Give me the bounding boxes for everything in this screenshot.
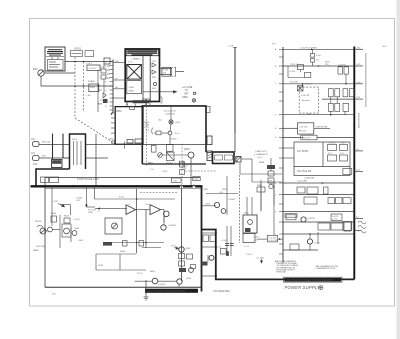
svg-text:R121: R121 — [90, 87, 96, 89]
thermistor RT708 — [298, 86, 304, 92]
svg-text:R646: R646 — [120, 251, 126, 253]
svg-text:LOW VOLTAGE REGULATOR BD: LOW VOLTAGE REGULATOR BD — [147, 290, 185, 293]
svg-text:C+ADJUST: C+ADJUST — [304, 176, 315, 179]
test point TP2 — [192, 99, 195, 102]
svg-text:T+R+2: T+R+2 — [246, 254, 253, 256]
resistor C680 — [203, 235, 216, 242]
svg-text:+TR: +TR — [183, 168, 187, 170]
rail partial 99.1 — [322, 98, 354, 100]
svg-text:COMBINATION TYPE.: COMBINATION TYPE. — [315, 267, 336, 270]
svg-text:C+R+LINE: C+R+LINE — [297, 181, 307, 183]
svg-text:CRT: CRT — [184, 94, 189, 96]
svg-text:V800: V800 — [116, 111, 122, 113]
notes paragraph — [275, 260, 299, 274]
verticals — [303, 84, 346, 115]
hanging resistors — [123, 241, 128, 247]
thermal cutout box — [213, 152, 235, 164]
svg-text:(DECOUPLED): (DECOUPLED) — [359, 113, 361, 128]
transistor Q662 — [72, 231, 77, 236]
cap marks — [225, 244, 234, 246]
svg-text:1 2 3: 1 2 3 — [128, 62, 132, 64]
output arrow — [143, 91, 176, 93]
svg-text:R650: R650 — [150, 271, 156, 273]
svg-text:SLO: SLO — [42, 156, 47, 158]
svg-text:R802: R802 — [129, 91, 135, 93]
op-amp U1 — [126, 205, 136, 215]
comp left of bus at 171 — [343, 169, 352, 175]
neon B842 — [168, 131, 172, 135]
label rect top right corner — [206, 107, 211, 113]
svg-text:(FOCUS): (FOCUS) — [36, 246, 45, 248]
transistor Q680 — [209, 255, 214, 260]
transistor Q615 — [214, 202, 219, 207]
svg-text:C+R 2: C+R 2 — [86, 63, 93, 65]
block J101 trigger selector box — [45, 47, 65, 71]
svg-text:R+R50: R+R50 — [170, 139, 177, 141]
tube V842 — [154, 83, 157, 86]
svg-text:LP101: LP101 — [74, 48, 82, 51]
rail I 211.6 — [283, 211, 354, 213]
second note — [315, 265, 338, 270]
svg-text:Resistor: Resistor — [302, 99, 310, 102]
bracket right of HV box — [161, 97, 163, 103]
svg-text:R+C5: R+C5 — [119, 197, 125, 199]
connecting wires right — [240, 158, 282, 184]
resistor R121 — [89, 84, 99, 92]
rail D 114.7 — [283, 114, 354, 116]
svg-text:P12: P12 — [33, 164, 38, 166]
transistor Q674 — [177, 279, 182, 284]
module pairs right — [328, 89, 354, 112]
svg-text:+R6C: +R6C — [109, 139, 115, 141]
dark comp — [226, 251, 229, 256]
grid box — [294, 142, 350, 175]
thick right edge path — [202, 230, 355, 280]
small bits above y144 line — [123, 141, 125, 148]
transistor Q667 — [179, 247, 184, 252]
reference bracket labels — [71, 51, 94, 57]
resistor R744 — [290, 244, 299, 250]
svg-text:R10: R10 — [33, 68, 38, 71]
transistor Q660 — [64, 228, 70, 234]
resistor R659 — [64, 218, 70, 223]
thick right bus — [353, 47, 355, 280]
top label — [164, 111, 176, 116]
transistor Q654 — [48, 227, 53, 232]
component cluster under Q667 — [179, 254, 193, 267]
wires strip to HV box — [113, 63, 125, 99]
svg-text:C+R660: C+R660 — [168, 225, 177, 227]
wire mid vertical — [97, 71, 99, 113]
selector box — [298, 123, 314, 134]
rail G 183 — [283, 182, 354, 184]
dark label R667 — [103, 242, 112, 246]
svg-text:P80: P80 — [115, 61, 118, 63]
labels inside — [215, 155, 233, 160]
right edge thick — [201, 186, 203, 292]
rail H 194.6 — [283, 194, 354, 196]
long vertical x181 — [181, 186, 183, 281]
svg-text:C+TR: C+TR — [228, 45, 234, 47]
svg-text:L+R+TR: L+R+TR — [302, 138, 310, 140]
resistor R845 — [180, 162, 185, 167]
strip ticks — [110, 62, 114, 111]
svg-text:L+R+TR: L+R+TR — [301, 95, 310, 97]
dark comp — [179, 268, 186, 272]
bottom edge — [142, 163, 206, 165]
dark junction blob — [86, 204, 88, 206]
svg-text:Q843: Q843 — [184, 149, 190, 151]
power supply title bar — [284, 277, 343, 282]
left arrowhead — [97, 207, 100, 209]
svg-text:GRID: GRID — [182, 97, 188, 99]
HV inner verticals — [143, 56, 150, 101]
svg-text:LOCATED AT POWER CHASSIS B: LOCATED AT POWER CHASSIS BOARD — [286, 279, 333, 282]
resistor R853 — [151, 146, 156, 153]
svg-text:Q+TR: Q+TR — [314, 243, 320, 245]
trim pot — [269, 184, 273, 188]
bus hops — [180, 185, 195, 188]
transformer T801 — [127, 65, 142, 80]
bridge sub-circuit — [288, 65, 311, 78]
diode CR122 — [103, 93, 106, 98]
arrow annotation — [58, 204, 65, 207]
svg-text:J: J — [105, 90, 106, 92]
svg-text:C+R 716: C+R 716 — [299, 127, 308, 129]
svg-text:C+R2: C+R2 — [193, 179, 199, 181]
junction dots — [136, 198, 147, 243]
op-amp U2 — [150, 205, 161, 215]
wire box to column — [65, 61, 113, 63]
rail L 250 partial — [283, 249, 318, 251]
svg-text:1N4152: 1N4152 — [305, 84, 313, 86]
block header text — [46, 48, 64, 56]
thermal switch box TK101 — [52, 160, 63, 168]
C706 pair near bus — [338, 66, 349, 84]
svg-text:C663: C663 — [78, 240, 84, 242]
diode V832 — [152, 70, 156, 74]
right label box — [331, 214, 342, 220]
pin tiny labels — [272, 44, 277, 237]
feedback pot box — [105, 218, 122, 234]
long vertical ground wire — [145, 280, 147, 297]
transistor Q663 — [164, 211, 170, 217]
svg-text:TO: TO — [185, 90, 188, 92]
svg-text:( SEE LIST ): ( SEE LIST ) — [255, 151, 268, 153]
svg-text:SCALE: SCALE — [88, 80, 95, 83]
svg-text:+R+TR2: +R+TR2 — [256, 258, 264, 260]
svg-text:C 840: C 840 — [163, 70, 169, 72]
svg-text:(+TP): (+TP) — [53, 201, 59, 203]
curly bracket — [151, 128, 154, 135]
note text SEE PARTS — [254, 151, 268, 164]
svg-text:070-0914 00A: 070-0914 00A — [214, 289, 231, 293]
svg-text:F601 1A: F601 1A — [42, 141, 50, 144]
svg-text:J12: J12 — [31, 152, 36, 155]
diode stack right — [101, 64, 106, 93]
svg-text:+ TRANS +: + TRANS + — [131, 58, 142, 61]
svg-text:L+C+TR: L+C+TR — [268, 237, 276, 239]
HV header label — [126, 50, 158, 56]
trim resistor — [268, 171, 274, 176]
high voltage supply box — [125, 49, 159, 102]
wire CRT supply — [234, 48, 236, 134]
svg-text:R659: R659 — [64, 216, 70, 218]
svg-text:( 0.5 ): ( 0.5 ) — [257, 157, 263, 159]
resistor R656 — [51, 216, 57, 222]
svg-text:L+R672: L+R672 — [158, 284, 166, 286]
emitter box Q660 — [62, 224, 71, 237]
wires — [206, 175, 240, 243]
rail E 128.3 — [283, 127, 298, 129]
bottom edge — [45, 286, 202, 288]
diode V822 — [152, 63, 156, 67]
svg-text:REGULAR: REGULAR — [276, 271, 286, 274]
svg-text:+R+C2: +R+C2 — [166, 163, 173, 165]
svg-text:+TR: +TR — [268, 181, 272, 183]
rail C 83.8 — [283, 83, 354, 85]
wires bottom area — [96, 254, 179, 287]
bracket label — [172, 67, 176, 76]
svg-text:R848: R848 — [259, 162, 265, 164]
side labels — [246, 237, 265, 260]
transistor Q672 — [189, 268, 194, 273]
stub labels — [356, 47, 361, 218]
svg-text:+C2 R: +C2 R — [143, 127, 149, 129]
potentiometer R101 — [38, 70, 44, 76]
dashed stub under box A — [140, 192, 178, 194]
svg-text:C645: C645 — [98, 265, 104, 267]
verticals up — [247, 180, 274, 215]
CRT circuit box — [142, 106, 206, 164]
svg-text:C+R+2: C+R+2 — [253, 237, 260, 239]
page edge shading — [397, 0, 400, 339]
dashed vertical column — [74, 57, 76, 118]
svg-text:+C+R2: +C+R2 — [221, 240, 228, 242]
row under rail G — [297, 187, 328, 194]
fuse F101 — [63, 157, 70, 159]
comp pair left of bus lower — [343, 222, 352, 231]
AC wave symbol — [358, 221, 366, 233]
arrow to Q667 — [175, 247, 179, 249]
diode CR845 — [156, 131, 161, 135]
trim component stack — [267, 165, 275, 169]
bottom wire — [103, 242, 164, 244]
resistor box — [221, 248, 227, 254]
dashed mid stub — [185, 170, 216, 172]
transistor Q620 — [248, 220, 253, 225]
box below — [243, 234, 255, 243]
svg-text:Q662: Q662 — [74, 228, 80, 230]
strip pin labels — [105, 61, 107, 109]
op-amp area labels — [97, 197, 150, 214]
transistor Q843 — [188, 152, 194, 158]
dashed vertical — [181, 144, 183, 186]
cap pair C702 — [311, 49, 315, 66]
junction dots rails — [302, 49, 347, 235]
ground symbol — [144, 297, 149, 300]
svg-text:+C704: +C704 — [289, 71, 296, 73]
svg-text:L: L — [105, 98, 106, 100]
pin ticks — [279, 49, 283, 254]
hatched box 2 — [236, 156, 241, 162]
svg-text:J: J — [275, 195, 276, 197]
dashed boundary — [145, 103, 147, 166]
heavy bus bar — [31, 185, 203, 187]
svg-text:Q674: Q674 — [186, 278, 192, 280]
left text cluster — [143, 121, 150, 132]
thermal label box — [285, 214, 297, 218]
header label boxes — [41, 177, 201, 183]
small rect above Q672 — [191, 265, 196, 269]
component box mid — [243, 215, 257, 233]
wire from hatched box — [241, 158, 252, 160]
row 2 rects — [304, 197, 351, 204]
regulator box outline top — [45, 178, 201, 187]
pot R667 — [112, 223, 118, 229]
tick stub labels — [115, 61, 118, 89]
svg-text:C+R706: C+R706 — [338, 64, 346, 66]
svg-text:L: L — [275, 234, 276, 236]
svg-text:5 CRT PULSE CIRC: 5 CRT PULSE CIRC — [77, 178, 99, 181]
dashed vertical column 2 — [83, 62, 85, 113]
stub wires to grid box — [283, 147, 294, 149]
bottom resistors — [143, 99, 146, 102]
bus junction dots — [72, 185, 195, 187]
svg-text:LAMP: LAMP — [97, 103, 103, 106]
junction dots — [74, 61, 99, 87]
svg-text:L+R 20: L+R 20 — [89, 68, 97, 70]
wire pot to dashed column — [44, 72, 75, 74]
right attached resistor T+R — [207, 136, 212, 145]
small rect top — [104, 58, 110, 64]
svg-text:LCT ATMC: LCT ATMC — [297, 150, 308, 153]
inner top edge — [45, 188, 201, 190]
title bar SWEEP — [145, 289, 198, 293]
dashed diagonal to regulator — [75, 118, 114, 143]
svg-text:+WR EXTRA: +WR EXTRA — [315, 125, 327, 128]
wire Q663 down — [163, 216, 165, 225]
grid cells small rects — [328, 144, 348, 161]
label box A+TR — [166, 145, 173, 152]
wires through — [86, 134, 115, 186]
svg-text:C+R651: C+R651 — [228, 199, 236, 201]
transformer primary box — [70, 134, 86, 169]
winding verticals — [74, 141, 82, 165]
wire — [154, 132, 156, 134]
dark component — [245, 228, 251, 232]
trim resistor 2 — [268, 178, 274, 183]
svg-text:( +GAIN ADJ ): ( +GAIN ADJ ) — [254, 153, 268, 156]
svg-text:L+R+TR 17V RMS: L+R+TR 17V RMS — [300, 47, 317, 49]
hatched box right — [207, 151, 212, 161]
circled plus — [319, 286, 323, 290]
pin column — [282, 47, 284, 263]
left edge — [44, 186, 46, 288]
rail F 137.4 — [283, 136, 354, 138]
second vertical — [62, 134, 64, 158]
label box on rail F — [301, 135, 317, 140]
L-shaped thick wire — [36, 169, 70, 186]
filter verticals — [227, 226, 231, 256]
strip ticks left of box — [111, 113, 115, 133]
op-amp wires top — [94, 199, 175, 223]
dark comp 2 — [202, 262, 208, 266]
wire up right — [317, 232, 319, 244]
wire 247 — [142, 247, 161, 249]
capacitor C840 — [162, 67, 171, 76]
resistor on vertical — [257, 187, 265, 192]
center long vertical — [136, 189, 138, 253]
page frame — [30, 19, 395, 307]
vertical 2 — [145, 210, 147, 249]
secondary shield box — [127, 81, 142, 94]
svg-text:+1N: +1N — [219, 192, 223, 194]
graticule cluster: choke L120 — [87, 65, 100, 71]
rail B 66 — [283, 65, 354, 67]
mid horizontal line — [115, 143, 207, 145]
gap wires — [202, 233, 218, 276]
svg-text:R+C708: R+C708 — [290, 82, 298, 84]
wire pot to Q — [162, 154, 188, 156]
svg-text:Thru-Hole 3W: Thru-Hole 3W — [297, 170, 312, 173]
svg-text:(+R+C2 +TR): (+R+C2 +TR) — [164, 111, 176, 113]
transistor Q742 — [307, 239, 312, 244]
wire box A to B — [206, 152, 214, 154]
rail J 222 — [283, 221, 354, 223]
HV bottom label — [133, 100, 150, 103]
test point TP — [193, 92, 196, 95]
svg-text:(C840 +B): (C840 +B) — [166, 113, 176, 115]
svg-text:+2.2 LINE: +2.2 LINE — [182, 87, 193, 89]
svg-text:C+R+TR2: C+R+TR2 — [268, 240, 278, 242]
focus pot R640 — [37, 225, 46, 234]
resistor R846 — [180, 170, 185, 175]
inner component boxes — [127, 139, 142, 143]
labels near vertical — [150, 166, 199, 183]
svg-text:Q+R737: Q+R737 — [307, 218, 316, 220]
connector strip — [111, 60, 113, 115]
wires left cluster — [46, 186, 95, 248]
svg-text:FR+TR: FR+TR — [299, 131, 306, 133]
row above rail K — [318, 222, 351, 231]
plug P12 — [33, 156, 71, 161]
indicator lamp B841 — [169, 120, 173, 124]
inner switch box S101 — [48, 57, 64, 70]
svg-text:POWER SUPPLY: POWER SUPPLY — [285, 285, 322, 290]
svg-text:INTEN: INTEN — [35, 221, 42, 223]
transistor Q652 — [152, 278, 158, 284]
svg-text:C+R718: C+R718 — [328, 143, 336, 145]
transistor Q737 — [301, 217, 306, 222]
center vertical — [170, 106, 172, 120]
transistor Q616 — [221, 209, 226, 214]
svg-text:LAMP: LAMP — [33, 249, 39, 252]
svg-text:C808: C808 — [129, 87, 135, 89]
right output stubs — [354, 49, 363, 230]
plug P11 — [33, 142, 70, 147]
svg-text:100K: 100K — [88, 212, 93, 214]
svg-text:R658: R658 — [51, 213, 57, 215]
strip stubs — [107, 66, 110, 78]
rail A 49.3 — [283, 48, 354, 50]
wire Q to bus — [190, 158, 192, 186]
wire into box B top — [234, 133, 236, 152]
marks under — [180, 161, 185, 167]
exit wire right — [202, 205, 216, 207]
thin right vertical — [365, 53, 367, 107]
rail K 234 — [283, 233, 354, 235]
